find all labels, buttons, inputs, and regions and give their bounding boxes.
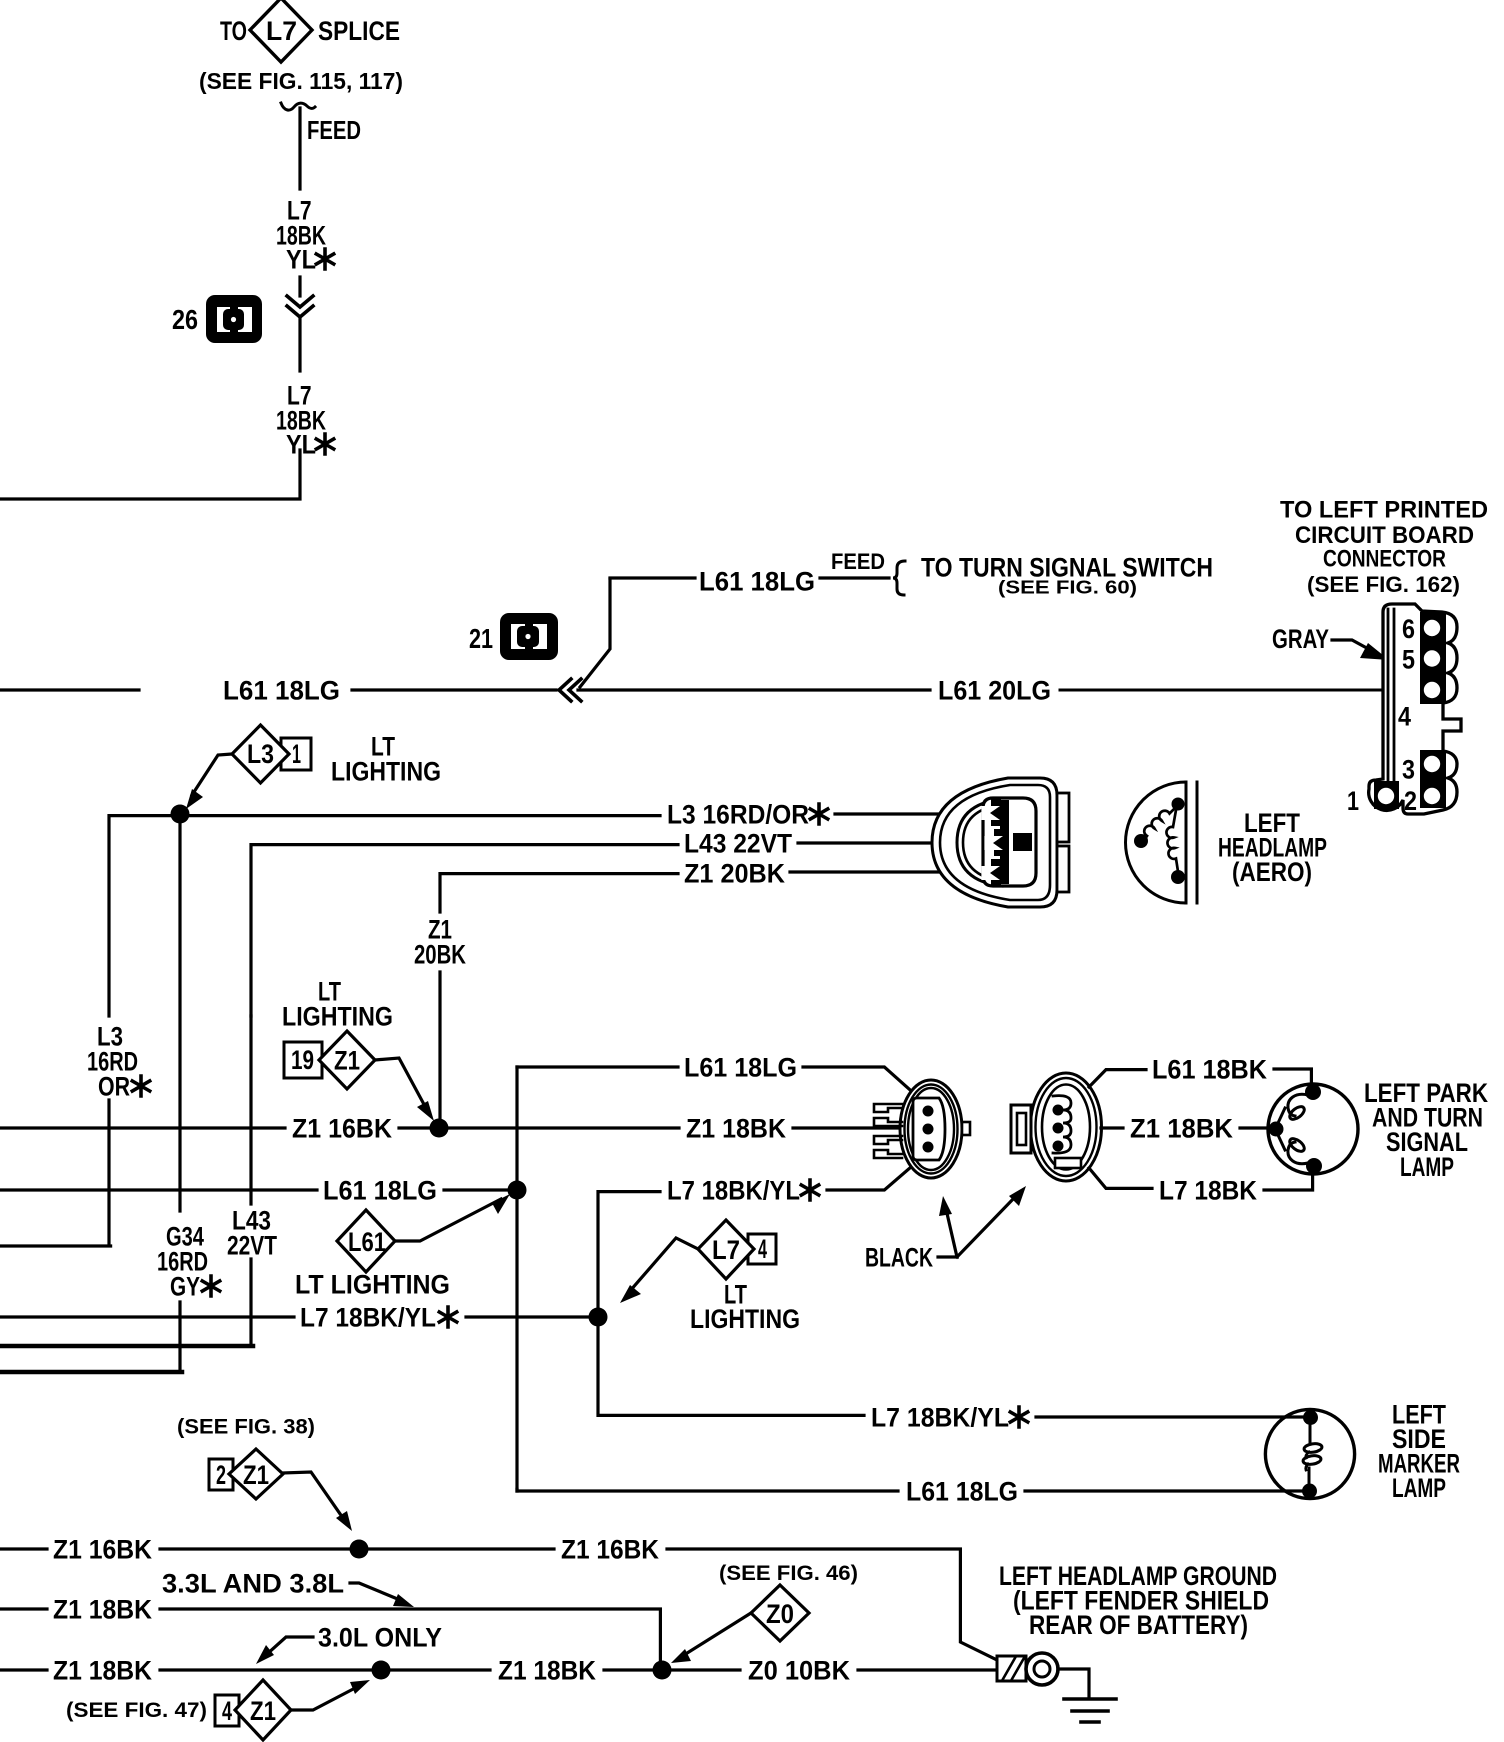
splice reference L3|1	[232, 725, 311, 783]
label GRAY with leader	[1272, 624, 1389, 660]
svg-text:Z1: Z1	[334, 1046, 360, 1076]
label 3.0L ONLY with leader	[256, 1622, 442, 1664]
node junction dot Z0	[653, 1661, 672, 1680]
svg-text:SPLICE: SPLICE	[318, 16, 400, 46]
label LT LIGHTING (L61)	[295, 1269, 450, 1299]
svg-text:5: 5	[1402, 645, 1415, 675]
label (SEE FIG. 47)	[66, 1699, 207, 1722]
node junction dot L61	[508, 1181, 527, 1200]
ring terminal with hatch	[997, 1653, 1058, 1685]
wire L7 to node	[466, 1315, 590, 1318]
splice symbol L7 (top)	[250, 0, 312, 62]
wire L61 into side marker lamp	[1025, 1489, 1308, 1492]
wire Z1 20BK horizontal	[440, 874, 678, 912]
svg-text:L7 18BK: L7 18BK	[1159, 1175, 1257, 1205]
label LEFT SIDE MARKER LAMP	[1378, 1399, 1460, 1503]
label LT LIGHTING (L3)	[331, 732, 441, 787]
wire Z1 18BK (lamp)	[1101, 1126, 1123, 1129]
wire Z0 10BK to ring terminal	[858, 1668, 997, 1671]
label (SEE FIG. 38)	[177, 1416, 315, 1439]
ground symbol	[1058, 1669, 1116, 1722]
wire feed underline segment	[820, 576, 889, 579]
svg-text:LAMP: LAMP	[1392, 1473, 1446, 1503]
svg-text:L7 18BK/YL: L7 18BK/YL	[667, 1175, 800, 1205]
connector symbol 21	[500, 613, 558, 660]
node junction dot L7	[589, 1308, 608, 1327]
svg-text:L61 18LG: L61 18LG	[323, 1175, 437, 1205]
label L43 22VT (vertical)	[227, 1206, 277, 1261]
splice reference Z0 diamond	[751, 1585, 809, 1641]
wire L61 upper branch horizontal	[517, 1065, 678, 1068]
leader arrow from L3|1 to junction	[186, 754, 232, 809]
wire L7 18BK/YL* horizontal (left)	[0, 1315, 294, 1318]
splice reference 19|Z1	[284, 1031, 375, 1089]
svg-text:TO: TO	[220, 16, 247, 46]
wire L43 horizontal	[251, 845, 678, 1016]
svg-text:TO LEFT PRINTED: TO LEFT PRINTED	[1280, 497, 1488, 524]
brace to turn signal switch	[893, 561, 905, 595]
node junction dot L3/G34	[171, 805, 190, 824]
label LT LIGHTING (L7)	[690, 1279, 800, 1334]
leader arrow from 19|Z1 to junction	[375, 1058, 434, 1121]
leader arrow from 2|Z1 to junction	[283, 1472, 352, 1531]
label SPLICE	[318, 16, 400, 46]
svg-text:LIGHTING: LIGHTING	[282, 1001, 393, 1031]
svg-text:4: 4	[1398, 702, 1411, 732]
headlamp connector body	[932, 778, 1069, 907]
leader arrow from 4|Z1 to junction	[291, 1680, 370, 1710]
svg-text:Z1: Z1	[243, 1460, 269, 1490]
splice reference L7|4	[698, 1220, 776, 1279]
label FEED (branch)	[831, 549, 885, 574]
label FEED (top)	[307, 115, 361, 145]
wire Z1 18BK into connector	[793, 1126, 922, 1129]
svg-text:21: 21	[469, 623, 493, 654]
wire L61 mid segment	[352, 688, 556, 691]
svg-text:(AERO): (AERO)	[1232, 857, 1312, 887]
svg-text:FEED: FEED	[307, 115, 361, 145]
label Z1 20BK (vertical)	[414, 915, 466, 970]
label L61 18LG (side marker)	[906, 1476, 1018, 1506]
svg-text:Z1: Z1	[250, 1696, 276, 1726]
label Z1 16BK (bottom mid)	[561, 1534, 659, 1564]
label Z1 16BK	[292, 1113, 392, 1143]
splice reference L61 diamond	[337, 1210, 395, 1272]
inline connector chevrons on wire L7	[287, 296, 313, 317]
wire Z1 18BK to Z0 junction	[604, 1668, 652, 1671]
park/turn lamp bulb	[1268, 1084, 1358, 1174]
wire Z1 18BK into lamp	[1240, 1126, 1271, 1129]
svg-text:LT LIGHTING: LT LIGHTING	[295, 1269, 450, 1299]
svg-text:L61 18LG: L61 18LG	[699, 566, 815, 596]
svg-text:GY: GY	[170, 1272, 200, 1302]
label Z1 18BK (3.0L line)	[53, 1655, 152, 1685]
node junction dot Z1 3.0L	[372, 1661, 391, 1680]
label (SEE FIG. 115, 117)	[199, 68, 403, 94]
wire L7 upper branch to connector	[827, 1161, 918, 1190]
wire Z1 18BK to connector	[448, 1126, 679, 1129]
svg-text:REAR OF BATTERY): REAR OF BATTERY)	[1029, 1610, 1248, 1640]
svg-text:Z0: Z0	[766, 1599, 794, 1629]
svg-text:L61 20LG: L61 20LG	[938, 676, 1051, 706]
svg-text:L61 18LG: L61 18LG	[223, 676, 340, 706]
svg-text:L7: L7	[712, 1235, 740, 1265]
wire Z1 18BK (3.3L/3.8L) left edge	[0, 1607, 47, 1610]
wire L61 18BK to lamp	[1274, 1069, 1311, 1090]
label 21	[469, 623, 493, 654]
wire L7 into side marker lamp	[1036, 1415, 1308, 1418]
svg-text:L61: L61	[348, 1227, 386, 1257]
inline connector chevrons on wire L61	[559, 679, 581, 701]
label BLACK with leader arrows	[865, 1186, 1026, 1273]
label L61 18LG (upper branch)	[684, 1052, 797, 1082]
svg-text:1: 1	[1347, 786, 1359, 816]
svg-text:GRAY: GRAY	[1272, 624, 1329, 654]
label L7 18BK/YL* (side marker)	[871, 1402, 1028, 1432]
svg-text:2: 2	[216, 1460, 226, 1490]
label L7 18BK YL* (upper)	[276, 196, 334, 275]
svg-text:26: 26	[172, 304, 198, 335]
svg-text:Z1 20BK: Z1 20BK	[684, 858, 785, 888]
wire L7 vertical mid segment	[298, 277, 301, 296]
feed squiggle at top of wire L7	[281, 103, 315, 110]
wire Z0 10BK	[671, 1668, 740, 1671]
label L3 16RD OR* (left column)	[87, 1022, 150, 1102]
svg-text:4: 4	[222, 1696, 232, 1726]
wire L61 main horizontal left segment	[0, 688, 139, 691]
label LEFT HEADLAMP (AERO)	[1218, 808, 1327, 887]
leader arrow from Z0 to junction	[671, 1613, 751, 1663]
wire L61 20LG to PCB connector pin 4	[1060, 689, 1421, 692]
svg-text:(SEE FIG. 38): (SEE FIG. 38)	[177, 1416, 315, 1439]
svg-text:(SEE FIG. 115, 117): (SEE FIG. 115, 117)	[199, 68, 403, 94]
wire L7 upper branch horizontal	[598, 1192, 660, 1318]
label L61 18LG (feed branch)	[699, 566, 815, 596]
svg-text:(SEE FIG. 60): (SEE FIG. 60)	[998, 578, 1137, 598]
wire L43 vertical	[249, 1016, 252, 1204]
label L7 18BK/YL* (right branch)	[667, 1175, 819, 1205]
wire L61 lower branch to side marker	[517, 1489, 898, 1491]
svg-text:1: 1	[292, 739, 301, 769]
wire Z1 16BK to ground	[667, 1549, 999, 1661]
svg-text:(SEE FIG. 47): (SEE FIG. 47)	[66, 1699, 207, 1722]
label Z1 20BK (horizontal)	[684, 858, 785, 888]
svg-text:LAMP: LAMP	[1400, 1152, 1454, 1182]
svg-text:Z0 10BK: Z0 10BK	[748, 1655, 850, 1685]
splice reference 2|Z1	[209, 1449, 283, 1499]
PCB connector pin numbers	[1347, 614, 1417, 816]
label TO TURN SIGNAL SWITCH	[921, 552, 1213, 582]
label Z1 18BK (3.3L line)	[53, 1594, 152, 1624]
svg-text:CONNECTOR: CONNECTOR	[1323, 545, 1446, 572]
label L7 18BK/YL* (left)	[300, 1302, 457, 1332]
svg-text:Z1 18BK: Z1 18BK	[53, 1655, 152, 1685]
wire L61 18LG horizontal (left)	[0, 1188, 317, 1191]
svg-text:L61 18BK: L61 18BK	[1152, 1054, 1267, 1084]
svg-text:6: 6	[1402, 614, 1415, 644]
headlamp bulb symbol (AERO)	[1126, 782, 1198, 903]
label L43 22VT (horizontal)	[684, 828, 792, 858]
svg-text:(SEE FIG. 46): (SEE FIG. 46)	[719, 1562, 858, 1585]
wire feed branch horizontal	[610, 576, 695, 579]
label Z1 18BK	[686, 1113, 786, 1143]
wire L3 horizontal	[109, 816, 660, 1016]
label L61 18LG (left)	[323, 1175, 437, 1205]
svg-text:L7 18BK/YL: L7 18BK/YL	[300, 1302, 436, 1332]
label Z1 18BK (bottom mid)	[498, 1655, 596, 1685]
label (SEE FIG. 46)	[719, 1562, 858, 1585]
label Z1 18BK (lamp)	[1130, 1113, 1233, 1143]
label L7 18BK YL* (lower)	[276, 381, 334, 460]
node junction dot Z1	[430, 1119, 449, 1138]
svg-text:L7 18BK/YL: L7 18BK/YL	[871, 1402, 1009, 1432]
PCB connector body	[1369, 604, 1461, 814]
wire L7 vertical lower segment	[298, 318, 301, 371]
label L61 20LG	[938, 676, 1051, 706]
harness connector (black, 3-pin) C1	[874, 1080, 970, 1178]
wire L7 18BK	[1089, 1168, 1152, 1188]
wire L7 18BK to lamp	[1264, 1168, 1313, 1190]
node junction dot Z1 bottom	[350, 1540, 369, 1559]
wire L61 vertical trunk	[515, 1067, 518, 1491]
svg-text:20BK: 20BK	[414, 939, 466, 969]
label TO LEFT PRINTED CIRCUIT BOARD CONNECTOR (SEE FIG. 162)	[1280, 497, 1488, 597]
wire Z1 16BK to junction	[399, 1126, 429, 1129]
svg-text:Z1 18BK: Z1 18BK	[686, 1113, 786, 1143]
label G34 16RD GY*	[157, 1222, 220, 1302]
leader arrow from L7|4 to node	[620, 1238, 698, 1303]
svg-text:3.3L AND 3.8L: 3.3L AND 3.8L	[162, 1568, 344, 1598]
wire Z1 16BK to junction	[160, 1547, 351, 1550]
label L3 16RD/OR*	[667, 800, 828, 830]
label Z0 10BK	[748, 1655, 850, 1685]
svg-text:L61 18LG: L61 18LG	[906, 1476, 1018, 1506]
svg-text:4: 4	[758, 1234, 767, 1264]
svg-text:L7: L7	[266, 16, 297, 46]
wire L61 18LG to junction	[444, 1188, 509, 1191]
wire L7 vertical upper segment	[298, 108, 301, 189]
svg-text:Z1 18BK: Z1 18BK	[1130, 1113, 1233, 1143]
label (SEE FIG. 60)	[998, 578, 1137, 598]
wire Z1 18BK (3.0L) to junction	[160, 1668, 372, 1671]
svg-text:L43 22VT: L43 22VT	[684, 828, 792, 858]
label 26	[172, 304, 198, 335]
svg-text:Z1 16BK: Z1 16BK	[561, 1534, 659, 1564]
svg-text:22VT: 22VT	[227, 1230, 277, 1260]
svg-text:LIGHTING: LIGHTING	[331, 756, 441, 786]
wire Z1 16BK horizontal (left)	[0, 1126, 285, 1129]
wire G34 to left edge	[0, 1302, 182, 1372]
svg-text:3: 3	[1402, 755, 1415, 785]
svg-text:LIGHTING: LIGHTING	[690, 1304, 800, 1334]
wire L43 to left edge	[0, 1259, 253, 1346]
wire L61 main right segment	[578, 688, 930, 691]
svg-text:L61 18LG: L61 18LG	[684, 1052, 797, 1082]
label LEFT PARK AND TURN SIGNAL LAMP	[1364, 1078, 1488, 1182]
svg-text:Z1 18BK: Z1 18BK	[498, 1655, 596, 1685]
svg-text:Z1 16BK: Z1 16BK	[292, 1113, 392, 1143]
label TO	[220, 16, 247, 46]
wire Z1 20BK vertical	[438, 972, 441, 1128]
label L7 18BK	[1159, 1175, 1257, 1205]
label LEFT HEADLAMP GROUND (LEFT FENDER SHIELD REAR OF BATTERY)	[999, 1561, 1277, 1640]
wire feed branch diagonal and vertical	[580, 579, 610, 687]
wire Z1 18BK (3.0L) left edge	[0, 1668, 47, 1671]
label L61 18LG (main line)	[223, 676, 340, 706]
connector symbol 26	[206, 295, 262, 343]
svg-text:OR: OR	[98, 1072, 130, 1102]
svg-text:L3: L3	[247, 739, 274, 769]
svg-text:L3 16RD/OR: L3 16RD/OR	[667, 800, 809, 830]
wire Z1 16BK mid segment	[368, 1547, 554, 1550]
wire L61 18BK	[1089, 1070, 1146, 1087]
svg-text:Z1 18BK: Z1 18BK	[53, 1594, 152, 1624]
wire L7 to left edge	[0, 450, 300, 499]
wire Z1 16BK bottom (left edge)	[0, 1547, 47, 1550]
svg-text:3.0L ONLY: 3.0L ONLY	[318, 1622, 442, 1652]
svg-text:19: 19	[291, 1045, 314, 1075]
svg-text:BLACK: BLACK	[865, 1243, 933, 1273]
wire L3 to headlamp connector	[835, 812, 984, 815]
side marker lamp bulb	[1265, 1409, 1354, 1498]
wire L7 lower branch to side marker	[598, 1318, 864, 1415]
wire L43 to headlamp connector	[798, 841, 987, 844]
wire Z1 18BK (3.3L) to junction	[160, 1609, 660, 1662]
wire Z1 20BK to headlamp connector	[790, 870, 984, 873]
leader arrow from L61 to junction	[395, 1194, 510, 1241]
svg-text:YL: YL	[286, 245, 316, 275]
label LT LIGHTING (19/Z1)	[282, 977, 393, 1032]
svg-text:2: 2	[1404, 786, 1417, 816]
svg-text:(SEE FIG. 162): (SEE FIG. 162)	[1307, 572, 1460, 597]
wire G34 vertical	[178, 823, 181, 1211]
harness connector (black, 3-pin) C2	[1011, 1073, 1102, 1181]
wire L61 upper branch to connector	[803, 1067, 918, 1097]
svg-text:FEED: FEED	[831, 549, 885, 574]
svg-text:Z1 16BK: Z1 16BK	[53, 1534, 152, 1564]
label L61 18BK	[1152, 1054, 1267, 1084]
wire L3 left vertical lower / to left edge	[0, 1100, 111, 1246]
wire Z1 18BK mid	[390, 1668, 490, 1671]
label Z1 16BK (bottom left)	[53, 1534, 152, 1564]
label 3.3L AND 3.8L with leader	[162, 1568, 414, 1607]
splice reference 4|Z1	[215, 1680, 291, 1740]
